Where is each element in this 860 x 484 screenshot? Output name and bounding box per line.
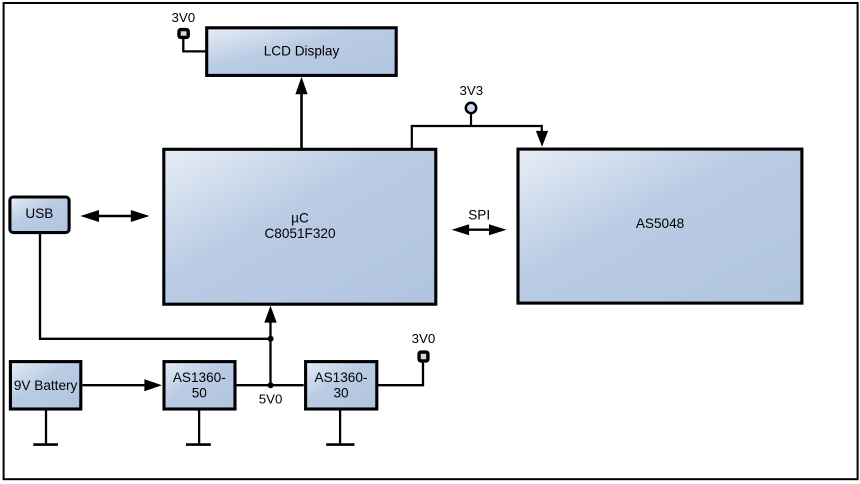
svg-text:9V Battery: 9V Battery (14, 378, 78, 393)
node 3V3 circle (466, 103, 476, 113)
USB block (10, 197, 69, 233)
SPI double arrow (452, 224, 507, 235)
svg-text:SPI: SPI (468, 208, 490, 223)
svg-text:5V0: 5V0 (259, 391, 283, 406)
wire/arrow 5V into uC (264, 306, 276, 386)
svg-text:AS1360-: AS1360- (173, 370, 226, 385)
AS5048 block (518, 149, 802, 303)
uC C8051F320 block (164, 149, 436, 304)
wire 3V3 net (412, 114, 542, 150)
ground (9V Battery) (33, 410, 58, 445)
AS1360-50 block (164, 362, 235, 409)
svg-text:50: 50 (192, 386, 208, 401)
svg-text:C8051F320: C8051F320 (264, 226, 335, 241)
junction node (5V0 rail) (268, 382, 274, 388)
wire AS1360-30 to 3V0 terminal (378, 361, 423, 385)
USB double arrow (80, 210, 149, 222)
arrow 3V3 into AS5048 (536, 131, 548, 147)
wire/arrow battery to AS1360-50 (83, 379, 162, 391)
wire USB down to 5V node (40, 232, 271, 338)
9V Battery block (10, 362, 80, 409)
wire AS1360-50 to AS1360-30 (5V0 rail) (236, 384, 304, 386)
svg-text:3V0: 3V0 (412, 331, 436, 346)
ground (AS1360-50) (186, 410, 211, 445)
svg-text:3V0: 3V0 (171, 10, 195, 25)
power terminal 3V0 (bottom right) (412, 331, 436, 361)
svg-text:AS1360-: AS1360- (315, 370, 368, 385)
junction node (USB wire / 5V line) (268, 336, 274, 342)
ground (AS1360-30) (326, 410, 354, 445)
svg-text:AS5048: AS5048 (636, 216, 684, 231)
svg-text:LCD Display: LCD Display (264, 44, 340, 59)
LCD Display block (207, 28, 397, 76)
svg-text:µC: µC (291, 210, 309, 225)
svg-text:30: 30 (333, 386, 349, 401)
AS1360-30 block (306, 362, 377, 409)
svg-text:3V3: 3V3 (459, 83, 483, 98)
wire 3V0 terminal to LCD Display (183, 39, 205, 52)
svg-text:USB: USB (25, 206, 53, 221)
wire/arrow uC to LCD Display (295, 77, 307, 150)
power terminal 3V0 (top left) (171, 10, 195, 37)
